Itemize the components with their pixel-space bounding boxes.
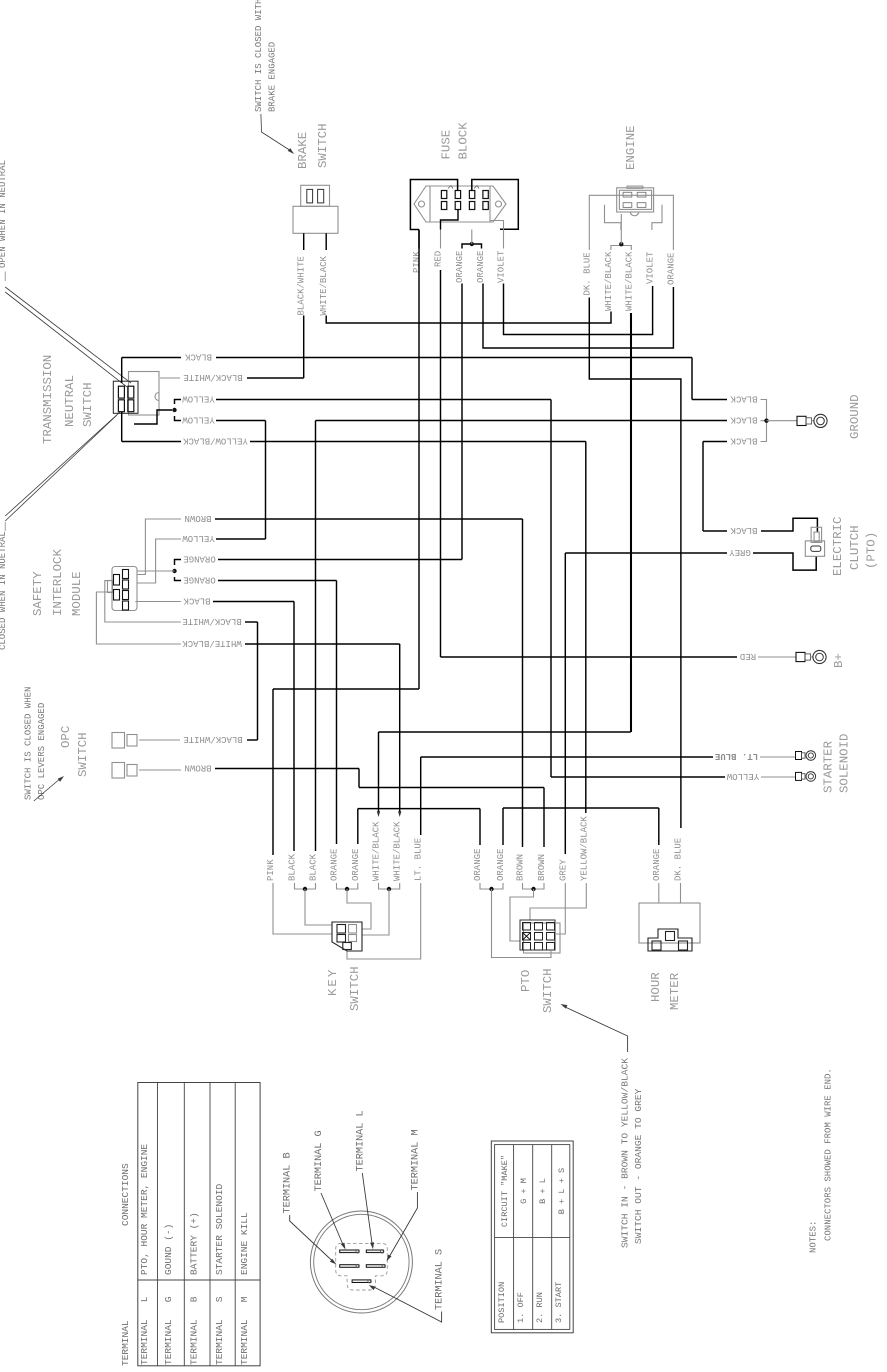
svg-text:SWITCH: SWITCH: [316, 123, 330, 168]
svg-text:TERMINAL G: TERMINAL G: [163, 1296, 174, 1365]
svg-text:SWITCH: SWITCH: [348, 966, 362, 1011]
svg-text:WHITE/BLACK: WHITE/BLACK: [604, 251, 614, 311]
svg-text:NOTES:: NOTES:: [809, 1221, 819, 1253]
svg-text:YELLOW: YELLOW: [726, 771, 759, 781]
svg-text:WHITE/BLACK: WHITE/BLACK: [624, 251, 634, 311]
svg-text:1. OFF: 1. OFF: [516, 1292, 526, 1323]
svg-text:PTO, HOUR METER, ENGINE: PTO, HOUR METER, ENGINE: [139, 1144, 150, 1275]
svg-text:ORANGE: ORANGE: [351, 849, 361, 881]
svg-text:SAFETY: SAFETY: [31, 571, 45, 616]
svg-text:SWITCH IS CLOSED WITH: SWITCH IS CLOSED WITH: [254, 0, 264, 112]
svg-text:OPC LEVERS ENGAGED: OPC LEVERS ENGAGED: [37, 703, 47, 800]
svg-text:CIRCUIT "MAKE": CIRCUIT "MAKE": [500, 1155, 510, 1227]
svg-text:BLACK: BLACK: [183, 595, 211, 605]
svg-text:2. RUN: 2. RUN: [535, 1292, 545, 1323]
svg-text:DK. BLUE: DK. BLUE: [582, 252, 592, 295]
svg-text:POSITION: POSITION: [497, 1282, 507, 1323]
svg-text:ORANGE: ORANGE: [496, 849, 506, 881]
svg-text:TERMINAL L: TERMINAL L: [139, 1296, 150, 1365]
svg-text:YELLOW: YELLOW: [182, 393, 215, 403]
svg-text:CONNECTORS SHOWED FROM WIRE EN: CONNECTORS SHOWED FROM WIRE END.: [824, 1068, 834, 1241]
svg-text:CONNECTIONS: CONNECTIONS: [120, 1163, 131, 1226]
svg-text:BLACK: BLACK: [730, 435, 758, 445]
svg-text:SWITCH IN - BROWN TO YELLOW/BL: SWITCH IN - BROWN TO YELLOW/BLACK: [620, 1058, 631, 1248]
svg-text:SWITCH: SWITCH: [76, 732, 90, 777]
svg-text:SWITCH: SWITCH: [541, 968, 555, 1013]
svg-text:B + L: B + L: [538, 1178, 548, 1204]
svg-text:(PTO): (PTO): [865, 532, 879, 569]
svg-text:ORANGE: ORANGE: [455, 251, 465, 283]
svg-text:ORANGE: ORANGE: [183, 553, 215, 563]
svg-text:BLACK/WHITE: BLACK/WHITE: [182, 616, 241, 626]
svg-text:ENGINE: ENGINE: [624, 125, 638, 170]
svg-text:WHITE/BLACK: WHITE/BLACK: [319, 255, 329, 315]
svg-text:TERMINAL G: TERMINAL G: [314, 1130, 325, 1191]
svg-text:TERMINAL M: TERMINAL M: [410, 1129, 421, 1190]
svg-text:ORANGE: ORANGE: [476, 251, 486, 283]
svg-text:SWITCH OUT - ORANGE TO GREY: SWITCH OUT - ORANGE TO GREY: [633, 1088, 644, 1244]
svg-text:BLACK: BLACK: [288, 853, 298, 881]
svg-text:YELLOW: YELLOW: [182, 414, 215, 424]
svg-text:3. START: 3. START: [554, 1282, 564, 1323]
svg-text:BROWN: BROWN: [537, 854, 547, 881]
svg-text:METER: METER: [668, 972, 682, 1010]
svg-text:TERMINAL L: TERMINAL L: [355, 1110, 366, 1171]
svg-text:INTERLOCK: INTERLOCK: [51, 549, 65, 616]
svg-text:BLACK: BLACK: [730, 415, 758, 425]
svg-text:YELLOW/BLACK: YELLOW/BLACK: [579, 816, 589, 881]
svg-text:VIOLET: VIOLET: [646, 251, 656, 284]
svg-text:TERMINAL M: TERMINAL M: [239, 1296, 250, 1365]
svg-text:MODULE: MODULE: [70, 571, 84, 616]
svg-text:BROWN: BROWN: [184, 762, 211, 772]
svg-text:B + L + S: B + L + S: [557, 1168, 567, 1214]
svg-text:VIOLET: VIOLET: [497, 250, 507, 283]
svg-text:TERMINAL: TERMINAL: [120, 1320, 131, 1366]
svg-text:CLOSED WHEN IN NUETRAL: CLOSED WHEN IN NUETRAL: [0, 531, 8, 650]
svg-text:ORANGE: ORANGE: [473, 849, 483, 881]
svg-text:BRAKE: BRAKE: [296, 132, 310, 169]
svg-text:ELECTRIC: ELECTRIC: [831, 517, 845, 577]
svg-text:FUSE: FUSE: [440, 130, 454, 160]
svg-text:SOLENOID: SOLENOID: [838, 734, 852, 794]
svg-text:CLUTCH: CLUTCH: [848, 525, 862, 570]
svg-text:BLACK/WHITE: BLACK/WHITE: [297, 256, 307, 315]
svg-text:ORANGE: ORANGE: [183, 574, 215, 584]
svg-text:DK. BLUE: DK. BLUE: [674, 838, 684, 881]
svg-text:GREY: GREY: [729, 547, 751, 557]
svg-text:OPC: OPC: [59, 726, 73, 748]
svg-text:OPEN WHEN IN NEUTRAL: OPEN WHEN IN NEUTRAL: [0, 160, 8, 268]
svg-text:WHITE/BLACK: WHITE/BLACK: [372, 821, 382, 881]
svg-text:KEY: KEY: [326, 968, 340, 996]
svg-text:BLACK/WHITE: BLACK/WHITE: [183, 372, 242, 382]
svg-text:PTO: PTO: [519, 970, 533, 992]
svg-text:STARTER SOLENOID: STARTER SOLENOID: [214, 1183, 225, 1275]
svg-text:LT. BLUE: LT. BLUE: [414, 838, 424, 881]
svg-text:STARTER: STARTER: [821, 740, 835, 793]
svg-text:TERMINAL S: TERMINAL S: [214, 1296, 225, 1365]
svg-text:ORANGE: ORANGE: [330, 849, 340, 881]
svg-text:WHITE/BLACK: WHITE/BLACK: [393, 821, 403, 881]
svg-text:BRAKE ENGAGED: BRAKE ENGAGED: [267, 42, 277, 112]
svg-text:ORANGE: ORANGE: [652, 849, 662, 881]
svg-text:GREY: GREY: [558, 859, 568, 881]
svg-text:TERMINAL B: TERMINAL B: [283, 1152, 294, 1213]
svg-text:B+: B+: [832, 653, 846, 668]
svg-text:G + M: G + M: [519, 1178, 529, 1204]
svg-text:YELLOW: YELLOW: [182, 533, 215, 543]
svg-text:YELLOW/BLACK: YELLOW/BLACK: [182, 435, 247, 445]
svg-text:LT. BLUE: LT. BLUE: [714, 751, 758, 761]
svg-text:TERMINAL B: TERMINAL B: [189, 1296, 200, 1365]
svg-text:BATTERY (+): BATTERY (+): [189, 1212, 200, 1275]
svg-text:BLACK: BLACK: [184, 351, 212, 361]
svg-text:SWITCH: SWITCH: [81, 382, 95, 427]
svg-text:BLOCK: BLOCK: [456, 122, 470, 160]
svg-text:GOUND (-): GOUND (-): [163, 1224, 174, 1275]
svg-text:RED: RED: [740, 651, 756, 661]
svg-text:BLACK/WHITE: BLACK/WHITE: [183, 734, 242, 744]
svg-text:TERMINAL S: TERMINAL S: [435, 1249, 446, 1310]
svg-text:HOUR: HOUR: [649, 972, 663, 1002]
svg-text:WHITE/BLACK: WHITE/BLACK: [182, 638, 242, 648]
svg-text:BLACK: BLACK: [309, 853, 319, 881]
svg-text:TRANSMISSION: TRANSMISSION: [41, 355, 55, 444]
svg-text:BROWN: BROWN: [184, 513, 211, 523]
svg-text:GROUND: GROUND: [848, 394, 862, 439]
svg-text:BLACK: BLACK: [730, 393, 758, 403]
svg-text:PINK: PINK: [266, 859, 276, 881]
svg-text:ENGINE KILL: ENGINE KILL: [239, 1212, 250, 1275]
svg-text:BLACK: BLACK: [730, 525, 758, 535]
svg-text:PINK: PINK: [412, 251, 422, 273]
svg-text:BROWN: BROWN: [516, 854, 526, 881]
svg-text:SWITCH IS CLOSED WHEN: SWITCH IS CLOSED WHEN: [23, 687, 33, 800]
svg-text:RED: RED: [434, 251, 444, 267]
svg-text:ORANGE: ORANGE: [666, 253, 676, 285]
svg-text:NEUTRAL: NEUTRAL: [63, 375, 77, 427]
